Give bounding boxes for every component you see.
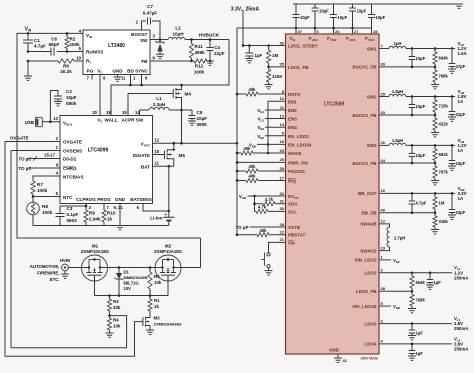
inductor L6 2.7uH (379, 224, 405, 251)
ground diode (156, 54, 164, 58)
svg-text:M3: M3 (154, 316, 161, 321)
svg-text:HVIN: HVIN (60, 258, 70, 263)
svg-text:HVBUCK: HVBUCK (199, 33, 220, 39)
wire EN_LDO34 (249, 142, 286, 148)
transistor M1 (81, 244, 110, 282)
capacitor C3 (56, 206, 87, 226)
capacitor C7 (142, 4, 161, 40)
svg-text:9, 21: 9, 21 (114, 205, 124, 210)
wire HVIN to M1 (68, 267, 81, 269)
transistor M2 (154, 244, 183, 282)
wire BATSENS (143, 204, 170, 213)
svg-text:33: 33 (381, 110, 386, 115)
svg-text:17: 17 (280, 175, 285, 180)
svg-text:10k: 10k (154, 280, 162, 285)
wire SW2 (379, 95, 455, 98)
svg-text:WALL: WALL (104, 118, 117, 123)
ground LT3480 GND pin (114, 75, 122, 82)
svg-text:10µF: 10µF (357, 9, 367, 14)
ground HVIN (61, 271, 69, 279)
svg-text:10µF: 10µF (300, 15, 310, 20)
resistor R22 604k (433, 49, 449, 67)
resistor R11 (189, 40, 205, 62)
svg-text:R12: R12 (195, 64, 204, 69)
pin 10 (76, 56, 81, 61)
svg-text:BB_FB: BB_FB (361, 211, 377, 216)
svg-text:C7: C7 (147, 4, 153, 9)
svg-text:768k: 768k (416, 298, 426, 303)
ground C15 (448, 166, 456, 170)
svg-text:SDA: SDA (288, 202, 298, 207)
ground R27 (431, 181, 439, 185)
wire LDO2 (379, 272, 452, 275)
pin 8 (153, 56, 156, 61)
svg-text:10: 10 (280, 96, 285, 101)
ground LTC4099 (116, 226, 124, 230)
svg-text:TO µC: TO µC (19, 156, 33, 161)
svg-text:68pF: 68pF (49, 42, 60, 47)
svg-text:ACPR: ACPR (121, 118, 135, 123)
svg-text:68L71G: 68L71G (124, 281, 139, 286)
wire LDO3 (379, 322, 452, 325)
node L1 output (180, 109, 192, 112)
wire FB (150, 60, 193, 63)
svg-text:C4: C4 (214, 45, 220, 50)
ground C13 (448, 117, 456, 121)
node VIN input (25, 26, 32, 34)
svg-text:41: 41 (343, 358, 348, 363)
svg-text:BUCK2_FB: BUCK2_FB (352, 113, 377, 118)
svg-text:D0-D2: D0-D2 (63, 157, 77, 162)
svg-text:10µF: 10µF (416, 56, 426, 61)
svg-text:ZXMP10A18G: ZXMP10A18G (154, 249, 183, 254)
svg-text:C1: C1 (34, 38, 40, 43)
node VL4 output (454, 336, 469, 351)
svg-text:36: 36 (280, 40, 285, 45)
pin 11 (121, 76, 126, 81)
svg-text:SW3: SW3 (367, 143, 377, 148)
wire SW (150, 38, 168, 41)
ground R4 (106, 333, 114, 337)
ground C19 (408, 336, 416, 340)
svg-text:1µF: 1µF (434, 280, 442, 285)
resistor R9 (84, 210, 101, 226)
wire M4 source to VOUT (181, 110, 183, 143)
svg-text:767k: 767k (439, 170, 449, 175)
pin 9 (103, 76, 106, 81)
svg-text:47µF: 47µF (456, 64, 466, 69)
svg-text:100k: 100k (42, 210, 53, 215)
svg-text:10µF: 10µF (66, 95, 77, 100)
svg-text:SW2: SW2 (367, 94, 377, 99)
svg-text:TO µP: TO µP (235, 225, 248, 230)
wire BUCK1_FB (379, 66, 436, 69)
node VL2 output (454, 265, 469, 280)
wire OVSENS net (10, 151, 12, 348)
svg-text:M1: M1 (92, 244, 99, 249)
pin 19 (122, 110, 127, 115)
svg-text:LDO1_STDBY: LDO1_STDBY (288, 44, 318, 49)
svg-text:32: 32 (280, 191, 285, 196)
ground C18 (426, 285, 434, 289)
svg-text:604k: 604k (439, 56, 449, 61)
capacitor C17 22uF (449, 193, 466, 215)
pin 1 ovsens (56, 145, 59, 150)
wire LDO2_FB (379, 290, 413, 293)
resistor R18 40k IRQ (236, 174, 286, 183)
svg-text:R4: R4 (113, 318, 119, 323)
resistor R5 (148, 268, 162, 296)
wire VC vertical (99, 75, 101, 116)
ground R23 (431, 85, 439, 89)
resistor R23 768k (433, 67, 449, 85)
resistor R30 604k (410, 273, 426, 292)
svg-text:1k: 1k (154, 304, 159, 309)
ground R29 (431, 230, 439, 234)
svg-text:1M: 1M (272, 53, 278, 58)
svg-text:SW4CD: SW4CD (360, 248, 377, 253)
capacitor C14 10uF (409, 145, 426, 163)
svg-text:604k: 604k (416, 280, 426, 285)
svg-text:BATSENS: BATSENS (130, 197, 152, 202)
svg-text:LDO1_FB: LDO1_FB (288, 65, 309, 70)
svg-text:0805: 0805 (197, 122, 208, 127)
ground C2 (54, 102, 62, 106)
pin 18 (106, 110, 111, 115)
svg-text:40k: 40k (260, 228, 268, 233)
svg-text:10µF: 10µF (376, 15, 386, 20)
wire M2 drain to load (182, 267, 201, 269)
pin 1 (133, 76, 136, 81)
svg-text:4.7k: 4.7k (265, 197, 274, 202)
svg-text:MMBZ5240B: MMBZ5240B (124, 275, 148, 280)
svg-text:EN2: EN2 (288, 108, 297, 113)
resistor R20 4.7k SCL (255, 205, 286, 214)
capacitor C5 (189, 110, 208, 127)
resistor R25 422k (433, 115, 449, 133)
svg-text:4.7µF: 4.7µF (34, 44, 46, 49)
svg-text:Li-Ion: Li-Ion (150, 216, 162, 221)
svg-text:BD: BD (127, 69, 134, 74)
svg-text:M5: M5 (179, 153, 186, 158)
wire VOUT rail (236, 28, 238, 235)
svg-text:0.1µF: 0.1µF (67, 212, 79, 217)
svg-text:18: 18 (106, 110, 111, 115)
svg-text:1A: 1A (458, 148, 464, 153)
pin 4 (79, 29, 82, 34)
pin 12 (155, 138, 160, 143)
ground C4 (206, 61, 214, 65)
svg-text:R1: R1 (154, 298, 160, 303)
svg-text:39: 39 (381, 62, 386, 67)
capacitor C16 4.7uF (409, 193, 427, 212)
wire OVSENS (11, 150, 60, 152)
svg-text:BOOST: BOOST (131, 32, 148, 37)
pins PVIN top (290, 28, 379, 42)
svg-text:250mA: 250mA (454, 347, 469, 352)
svg-text:PROG: PROG (97, 197, 111, 202)
resistor R26 681k (433, 145, 449, 163)
resistor R27 767k (433, 163, 449, 181)
node LDO1 FB junction (267, 66, 270, 69)
pin 10 idgate (155, 149, 160, 154)
svg-text:1µH: 1µH (394, 41, 402, 46)
svg-text:EN1: EN1 (288, 99, 297, 104)
svg-text:RSTO: RSTO (288, 92, 301, 97)
svg-text:14: 14 (135, 110, 140, 115)
svg-text:24: 24 (335, 29, 340, 34)
wire BUCK2_FB (379, 114, 436, 117)
resistor R10 (102, 204, 116, 226)
ground M3 (146, 330, 154, 334)
svg-text:0603: 0603 (67, 218, 78, 223)
svg-text:IDGATE: IDGATE (133, 153, 150, 158)
svg-text:1µF: 1µF (416, 351, 424, 356)
svg-text:SW1: SW1 (367, 46, 377, 51)
svg-text:316K: 316K (272, 74, 283, 79)
USB connector (25, 117, 43, 126)
svg-text:SW: SW (136, 118, 144, 123)
svg-text:22: 22 (280, 230, 285, 235)
svg-text:715k: 715k (439, 104, 449, 109)
svg-text:12: 12 (381, 219, 386, 224)
svg-text:768k: 768k (439, 74, 449, 79)
svg-text:USB: USB (25, 120, 34, 125)
svg-text:CLPROG: CLPROG (76, 197, 96, 202)
inductor L2 (169, 26, 186, 40)
ground cap bank (455, 4, 463, 8)
wire C1 to ground (27, 61, 29, 76)
svg-text:ZXMP10A18G: ZXMP10A18G (81, 249, 110, 254)
wire VIN to LT3480 pin 4 (28, 32, 83, 34)
svg-text:10V: 10V (124, 286, 132, 291)
svg-text:18: 18 (280, 139, 285, 144)
svg-text:1.5µH: 1.5µH (392, 138, 403, 143)
pin 7 (87, 76, 90, 81)
wire BB_OUT (379, 192, 455, 195)
svg-text:28: 28 (280, 222, 285, 227)
ground R31 (408, 309, 416, 313)
svg-text:2.7µH: 2.7µH (394, 236, 405, 241)
svg-text:VSTB: VSTB (288, 225, 301, 230)
svg-text:10µH: 10µH (172, 32, 184, 37)
ground LTC3589 GND (329, 348, 348, 364)
wire NTC (32, 195, 60, 198)
svg-text:1µF: 1µF (416, 331, 424, 336)
capacitor C2 (50, 89, 76, 122)
svg-text:33k: 33k (113, 305, 121, 310)
resistor R12 (192, 59, 211, 75)
ground R25 (431, 133, 439, 137)
svg-text:C2: C2 (66, 89, 72, 94)
capacitor C20 1uF (409, 344, 423, 356)
svg-text:22µF: 22µF (456, 112, 466, 117)
inductor L3 1uH (389, 41, 406, 49)
svg-text:10k: 10k (113, 324, 121, 329)
svg-text:LDO2_FB: LDO2_FB (356, 289, 377, 294)
svg-text:LT3480: LT3480 (108, 43, 125, 49)
resistor R13 1M (267, 46, 279, 67)
svg-text:M2: M2 (165, 244, 172, 249)
transistor M3 (139, 316, 182, 331)
svg-text:25: 25 (381, 91, 386, 96)
wire EN4 (257, 125, 285, 131)
svg-text:19: 19 (381, 245, 386, 250)
svg-text:16: 16 (381, 188, 386, 193)
svg-text:21: 21 (280, 237, 285, 242)
pin 6 (145, 76, 148, 81)
node R6 junction (27, 60, 30, 63)
svg-text:3.3V,: 3.3V, (231, 7, 243, 13)
resistor R29 316k (433, 213, 449, 230)
svg-text:FIREWIRE,: FIREWIRE, (37, 271, 59, 276)
svg-text:1.6A: 1.6A (458, 51, 468, 56)
svg-text:R8: R8 (42, 204, 48, 209)
capacitor C13 22uF (449, 97, 466, 118)
node HVBUCK (185, 33, 229, 41)
svg-text:L1: L1 (156, 96, 162, 101)
capacitor C4 (207, 40, 225, 63)
capacitor C15 22uF (449, 145, 466, 166)
svg-text:D1: D1 (124, 270, 130, 275)
node HVIN terminal (30, 258, 70, 282)
svg-text:40k: 40k (244, 146, 252, 151)
pin 7 prog (107, 205, 110, 210)
svg-text:SW4AB: SW4AB (360, 222, 377, 227)
svg-text:1.5µH: 1.5µH (392, 89, 403, 94)
pin 6 batsens (137, 205, 140, 210)
diode D1 zener (114, 268, 147, 296)
wire CLPROG stub (85, 204, 88, 211)
inductor L1 (140, 96, 182, 116)
svg-text:11: 11 (155, 160, 160, 165)
svg-text:12: 12 (155, 138, 160, 143)
ground R14 (265, 85, 273, 89)
resistor R15 40k RSTO (236, 87, 286, 96)
node VO3 output (458, 138, 467, 153)
wire VIN_LDO34 (379, 304, 400, 310)
wire BUCK3_FB (379, 162, 436, 165)
diode D2 schottky (155, 40, 165, 55)
svg-text:40k: 40k (249, 164, 257, 169)
node C1 bottom junction (27, 50, 30, 53)
pin 15-17 (44, 152, 55, 157)
svg-text:C3: C3 (67, 206, 73, 211)
svg-text:FB: FB (141, 59, 148, 64)
wire VSB vertical (254, 196, 256, 211)
resistor R14 316K (267, 67, 284, 85)
resistor R3 (107, 296, 120, 316)
svg-text:PWR_ON: PWR_ON (288, 160, 308, 165)
resistor R2 (65, 32, 80, 53)
svg-text:11: 11 (121, 76, 126, 81)
svg-text:26: 26 (381, 140, 386, 145)
capacitor C11 47uF (449, 49, 466, 70)
svg-text:15-17: 15-17 (44, 152, 55, 157)
svg-text:14: 14 (280, 122, 285, 127)
svg-text:22µF: 22µF (456, 161, 466, 166)
svg-text:SYNC: SYNC (135, 69, 148, 74)
svg-text:40: 40 (381, 208, 386, 213)
svg-text:19: 19 (122, 110, 127, 115)
svg-text:37: 37 (298, 29, 303, 34)
ground C1 (24, 76, 32, 80)
svg-text:R10: R10 (107, 211, 116, 216)
wire PWR_ON (236, 161, 286, 164)
switch ON pushbutton (261, 242, 286, 270)
svg-text:M4: M4 (185, 92, 192, 97)
svg-text:35: 35 (280, 62, 285, 67)
wire SW3 (379, 144, 455, 147)
svg-text:LTC4099: LTC4099 (88, 148, 109, 154)
svg-text:40k: 40k (249, 87, 257, 92)
resistor R1 (148, 296, 160, 316)
svg-text:EN_LDO2: EN_LDO2 (288, 134, 309, 139)
svg-text:13: 13 (280, 113, 285, 118)
node R3 R4 junction (108, 314, 111, 317)
wire EN1 bracket (267, 101, 286, 154)
svg-text:SW: SW (140, 38, 148, 43)
wire EN2 (257, 108, 285, 114)
node VL3 output (454, 316, 469, 331)
wire VIN feed from protection (17, 33, 201, 238)
svg-text:LDO3: LDO3 (364, 321, 376, 326)
wire PG stub (91, 75, 93, 80)
svg-text:BB_OUT: BB_OUT (358, 191, 377, 196)
svg-text:ZXMN10A06E6: ZXMN10A06E6 (154, 322, 183, 327)
node part number (361, 357, 379, 361)
svg-text:10: 10 (76, 56, 81, 61)
svg-text:0.47µF: 0.47µF (143, 11, 158, 16)
capacitor C9 1uF (245, 46, 262, 59)
op-amp U3 LTC3589 (286, 34, 380, 354)
svg-text:NTCBIAS: NTCBIAS (63, 175, 83, 180)
svg-text:250mA: 250mA (454, 326, 469, 331)
svg-text:316k: 316k (439, 219, 449, 224)
wire SYNC stub (140, 75, 143, 87)
capacitor bank input (293, 4, 460, 28)
svg-text:R6: R6 (63, 64, 69, 69)
svg-text:10µF: 10µF (416, 153, 426, 158)
svg-text:100k: 100k (37, 188, 48, 193)
svg-text:30: 30 (280, 206, 285, 211)
svg-text:499k: 499k (195, 50, 206, 55)
wire HVBUCK loop down (111, 40, 229, 116)
svg-text:R11: R11 (195, 44, 204, 49)
capacitor C18 1uF (427, 273, 441, 285)
resistor R4 (107, 316, 120, 333)
svg-text:0805: 0805 (66, 101, 77, 106)
wire BD stub (129, 75, 132, 87)
resistor R19 4.7k SDA (253, 197, 285, 206)
ground C20 (408, 356, 416, 360)
wire BAT row (153, 165, 174, 211)
svg-text:EN4: EN4 (288, 125, 297, 130)
svg-text:1A: 1A (458, 99, 464, 104)
wire C6 row (28, 51, 83, 53)
wire load riser to M2 (200, 238, 202, 268)
svg-text:R3: R3 (113, 299, 119, 304)
wire D0-D2 (19, 156, 61, 161)
pin 11 bat (155, 160, 160, 165)
inductor L4 1.5uH (389, 89, 406, 97)
svg-text:4.7k: 4.7k (258, 205, 267, 210)
wire LDO4 (379, 343, 452, 346)
svg-text:R7: R7 (37, 182, 43, 187)
svg-text:681k: 681k (439, 152, 449, 157)
wire OVGATE (5, 136, 60, 142)
pin 2 (136, 20, 139, 25)
